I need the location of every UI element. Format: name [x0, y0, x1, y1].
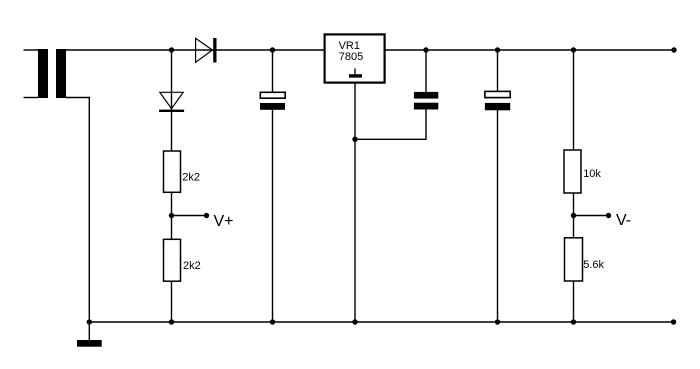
junction bottom rail / C3	[495, 319, 500, 324]
svg-text:V-: V-	[616, 212, 631, 229]
junction bottom rail / R4	[571, 319, 576, 324]
wire V+ stub	[172, 215, 207, 217]
junction bottom rail / R2	[169, 319, 174, 324]
svg-text:2k2: 2k2	[183, 260, 201, 272]
svg-text:7805: 7805	[339, 51, 363, 63]
wire primary top lead	[24, 49, 39, 51]
wire bottom rail	[89, 321, 674, 323]
junction top rail / C1	[270, 47, 275, 52]
svg-text:5.6k: 5.6k	[583, 259, 604, 271]
node V- terminal dot	[606, 213, 611, 218]
VR1 ground pin marker	[349, 68, 362, 77]
junction bottom rail / VR1 ground pin	[352, 319, 357, 324]
ground	[77, 340, 102, 347]
wire VR1 ground pin to bottom rail	[354, 81, 356, 322]
junction top rail / R3	[571, 47, 576, 52]
node top rail right end	[671, 47, 676, 52]
wire C2 to VR1 ground pin node	[355, 110, 426, 140]
svg-text:2k2: 2k2	[182, 172, 200, 184]
junction top rail / C3	[495, 47, 500, 52]
junction R1-R2 divider tap	[169, 213, 174, 218]
junction bottom rail / C1	[270, 319, 275, 324]
junction bottom rail / ground	[87, 319, 92, 324]
wire secondary bottom lead	[66, 98, 89, 323]
wire top rail	[66, 49, 675, 51]
junction VR1 ground pin node	[352, 137, 357, 142]
transformer T1 primary winding bar	[38, 49, 48, 98]
resistor R1	[164, 151, 181, 192]
svg-text:V+: V+	[214, 213, 234, 230]
wire C1 branch lower	[272, 110, 274, 323]
resistor R4	[565, 238, 583, 281]
wire ground lead	[88, 322, 90, 340]
resistor R2	[164, 239, 181, 281]
resistor R3	[564, 150, 581, 193]
node V+ terminal dot	[204, 213, 209, 218]
wire primary bottom lead	[24, 97, 39, 99]
diode D1	[196, 38, 217, 63]
capacitor C1	[260, 92, 285, 110]
junction R3-R4 divider tap	[571, 213, 576, 218]
capacitor C2	[414, 92, 438, 110]
junction top rail / D2 branch	[169, 47, 174, 52]
wire C1 branch upper	[272, 50, 274, 93]
wire D2 / R1 / R2 branch	[171, 50, 173, 322]
junction top rail / C2	[423, 47, 428, 52]
wire C2 branch upper	[425, 50, 427, 93]
diode D2	[159, 92, 184, 112]
wire V- stub	[574, 215, 609, 217]
svg-text:10k: 10k	[583, 168, 601, 180]
capacitor C3	[485, 91, 510, 110]
node bottom rail right end	[671, 319, 676, 324]
wire R3 / R4 branch	[573, 50, 575, 322]
wire C3 branch lower	[497, 110, 499, 323]
wire C3 branch upper	[497, 50, 499, 93]
transformer T1 secondary winding bar	[56, 49, 66, 98]
regulator VR1 box	[325, 34, 385, 82]
